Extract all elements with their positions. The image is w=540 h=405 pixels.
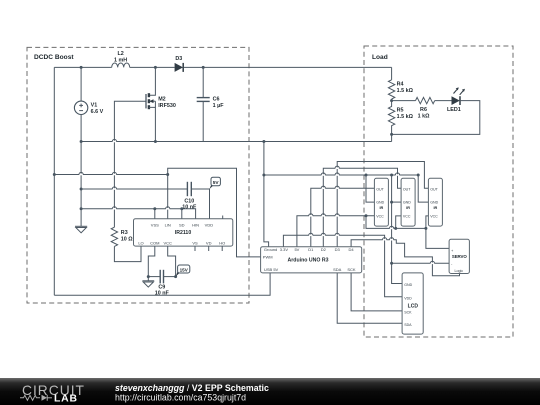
svg-text:VDD: VDD (205, 223, 214, 228)
node gnd drop box3 (417, 174, 420, 177)
svg-text:SERVO: SERVO (452, 254, 467, 259)
voltage source V1 (74, 67, 103, 141)
node PWM rail tap (53, 173, 56, 176)
svg-text:10 nF: 10 nF (155, 290, 170, 296)
ground symbol C9 (142, 277, 154, 288)
wire D2 to IR2 OUT (323, 168, 401, 247)
svg-text:GND: GND (403, 201, 411, 205)
capacitor C10 (182, 182, 197, 211)
wire left battery column (53, 67, 55, 295)
wire ground column B to LCD GND (392, 175, 403, 284)
node M2 source junction (154, 140, 157, 143)
wire ground distribution rail (264, 174, 418, 176)
footer bar (0, 378, 540, 405)
svg-text:D3: D3 (175, 56, 182, 62)
node SD tap (180, 207, 183, 210)
svg-text:LCD: LCD (408, 303, 419, 309)
pin stub VD (208, 246, 210, 251)
wire USB 5V rail (54, 273, 270, 295)
svg-text:OUT: OUT (430, 187, 438, 191)
resistor R3 (111, 227, 133, 246)
IC IR sensor 1 box (374, 178, 388, 226)
svg-text:GND: GND (404, 283, 412, 287)
capacitor C9 (147, 270, 177, 297)
wire servo plus (426, 228, 449, 248)
IC SERVO box (449, 239, 469, 273)
node gnd drop box1 (365, 174, 368, 177)
svg-text:M2: M2 (158, 96, 166, 102)
node C6 top junction (202, 66, 205, 69)
wire VSS stub (154, 209, 156, 219)
svg-text:LIN: LIN (165, 223, 171, 228)
wire M2 gate lead (114, 101, 146, 227)
node IR2 vcc tap (394, 227, 397, 230)
wire hops (non-connecting crossovers) (79, 139, 435, 263)
svg-text:L2: L2 (117, 51, 123, 57)
svg-text:SCK: SCK (347, 267, 356, 272)
wire D1 to IR1 OUT (311, 188, 375, 247)
wire IR2 VCC riser (396, 216, 401, 229)
svg-text:R6: R6 (420, 107, 427, 113)
svg-text:GND: GND (430, 201, 438, 205)
svg-text:Logic: Logic (455, 269, 464, 273)
wire PWM / LIN net (54, 168, 260, 257)
wire SD stub (181, 209, 183, 219)
svg-text:D3: D3 (335, 247, 341, 252)
svg-text:SD: SD (179, 223, 185, 228)
node 5V drop (365, 214, 368, 217)
svg-text:Arduino UNO R3: Arduino UNO R3 (288, 257, 329, 263)
IC IR sensor 2 box (401, 178, 415, 226)
svg-text:R3: R3 (121, 230, 128, 236)
svg-text:VDD: VDD (404, 297, 412, 301)
wire gnd rail to C10 (81, 188, 187, 190)
node V1 top junction (80, 66, 83, 69)
wire 3.3V to LCD VDD (283, 235, 402, 296)
wire SDA to LCD (337, 273, 402, 323)
IC IR sensor 3 box (428, 178, 442, 226)
svg-text:LED1: LED1 (447, 107, 461, 113)
svg-text:OUT: OUT (403, 187, 411, 191)
svg-text:Ground: Ground (264, 247, 277, 252)
wire D3 to IR3 OUT (337, 162, 428, 247)
svg-text:VCC: VCC (376, 215, 384, 219)
wire servo minus link (392, 262, 450, 264)
node gnd rail 209 tap (80, 207, 83, 210)
svg-text:C6: C6 (213, 96, 220, 102)
wire VCC to C9 (168, 246, 176, 277)
wire mid node to R6 (392, 100, 416, 102)
node VSS tap (153, 207, 156, 210)
pin stub HO (221, 246, 223, 251)
wire IR3 GND link (418, 175, 428, 202)
svg-text:D1: D1 (308, 247, 314, 252)
svg-text:10 Ω: 10 Ω (121, 237, 133, 243)
svg-text:1 µF: 1 µF (213, 103, 225, 109)
svg-text:1.5 kΩ: 1.5 kΩ (397, 114, 414, 120)
wire C10 to VDD (191, 189, 209, 219)
wire LED return loop (392, 101, 480, 135)
svg-text:1 kΩ: 1 kΩ (418, 113, 430, 119)
wire 5V bus (297, 216, 375, 247)
svg-text:5V: 5V (213, 180, 220, 186)
node servo minus tap (390, 262, 393, 265)
wire IR3 VCC riser (426, 216, 429, 229)
wire D4 to servo Logic (351, 240, 459, 276)
transistor M2 IRF530 (146, 67, 176, 141)
svg-text:SCK: SCK (404, 311, 412, 315)
svg-text:R5: R5 (397, 108, 404, 114)
wire ground stack column (80, 142, 82, 227)
pin stub top unused (222, 216, 224, 219)
svg-text:R4: R4 (397, 82, 404, 88)
svg-text:VSS: VSS (151, 223, 159, 228)
LED LED1 (447, 87, 465, 112)
IC LCD box (402, 273, 423, 334)
svg-text:IR: IR (433, 206, 437, 210)
wire IR1 GND link (366, 175, 374, 202)
node gnd drop box2 (390, 174, 393, 177)
wire R6 to LED (435, 100, 452, 102)
svg-text:SDA: SDA (404, 323, 412, 327)
wire load top drop (391, 67, 393, 79)
svg-text:Load: Load (372, 54, 388, 61)
node M2 drain junction (154, 66, 157, 69)
svg-text:1.5 kΩ: 1.5 kΩ (397, 88, 414, 94)
svg-text:6.6 V: 6.6 V (91, 109, 104, 115)
svg-text:http://circuitlab.com/ca753qjr: http://circuitlab.com/ca753qjrujt7d (115, 393, 246, 403)
svg-text:PWM: PWM (263, 255, 273, 260)
svg-text:5V: 5V (294, 247, 299, 252)
svg-text:VD: VD (206, 240, 212, 245)
net flag 5V (210, 177, 221, 189)
node V1 bottom junction (80, 140, 83, 143)
pin stub VS (194, 246, 196, 251)
svg-text:LO: LO (138, 240, 143, 245)
node ground distro tap (262, 174, 265, 177)
svg-text:D4: D4 (349, 247, 355, 252)
Load dashed region box (364, 46, 513, 337)
svg-text:V1: V1 (91, 103, 98, 109)
svg-text:1 mH: 1 mH (114, 58, 127, 64)
wire switch node segment (130, 66, 175, 68)
wire COM to C9 (148, 246, 155, 277)
svg-text:GND: GND (376, 201, 384, 205)
op-amp U1 IR2110 gate driver box (134, 219, 233, 246)
svg-text:IRF530: IRF530 (158, 103, 176, 109)
wire R5 bottom to rail (391, 134, 393, 141)
DCDC Boost dashed region box (27, 47, 249, 303)
wire boost ground rail (81, 141, 392, 143)
svg-text:DCDC Boost: DCDC Boost (34, 54, 74, 61)
svg-text:D2: D2 (321, 247, 327, 252)
resistor R4 (388, 80, 413, 99)
svg-text:LAB: LAB (54, 394, 78, 405)
svg-text:15V: 15V (180, 267, 189, 272)
wire top input segment (54, 66, 111, 68)
node IR2 gnd tap (390, 201, 393, 204)
node ground-column junction (262, 140, 265, 143)
svg-text:VS: VS (192, 240, 198, 245)
svg-text:VCC: VCC (163, 240, 172, 245)
wire R4 to mid node (391, 99, 393, 101)
logo schematic squiggle (20, 395, 52, 401)
svg-text:OUT: OUT (376, 187, 384, 191)
node LED return junction (390, 133, 393, 136)
svg-text:USB 5V: USB 5V (264, 267, 279, 272)
svg-text:3.3V: 3.3V (280, 247, 289, 252)
wire ground column to Arduino Ground (264, 142, 269, 247)
svg-text:10 nF: 10 nF (182, 204, 197, 210)
svg-text:IR: IR (379, 206, 383, 210)
IC Arduino UNO R3 box (261, 247, 362, 273)
capacitor C6 (197, 67, 225, 141)
svg-text:stevenxchanggg / V2 EPP Schema: stevenxchanggg / V2 EPP Schematic (115, 383, 269, 393)
resistor R6 (416, 97, 435, 119)
node servo plus tap (424, 227, 427, 230)
inductor L2 (112, 51, 130, 67)
wire output top segment (184, 66, 392, 68)
node gnd rail 189 tap (80, 188, 83, 191)
svg-text:HO: HO (219, 240, 225, 245)
wire IR2 GND link (392, 201, 402, 203)
net flag 15V (176, 265, 190, 277)
svg-text:COM: COM (150, 240, 159, 245)
node LED branch junction (390, 99, 393, 102)
svg-text:VCC: VCC (430, 215, 438, 219)
wire R3 to LO (114, 246, 141, 262)
wire SCK to LCD (351, 273, 402, 311)
svg-text:SDA: SDA (333, 267, 342, 272)
svg-text:VCC: VCC (403, 215, 411, 219)
wire 5V lower bus (366, 216, 426, 229)
resistor R5 (388, 101, 413, 135)
svg-text:IR2110: IR2110 (175, 230, 192, 236)
svg-text:HIN: HIN (192, 223, 199, 228)
diode D3 (175, 56, 184, 72)
ground symbol main (75, 226, 87, 233)
wire gnd rail to VSS SD HIN (81, 209, 196, 219)
svg-text:IR: IR (406, 206, 410, 210)
